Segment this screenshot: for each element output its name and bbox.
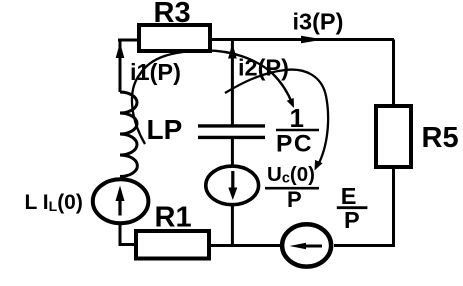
svg-text:Uc(0): Uc(0): [267, 163, 315, 187]
svg-text:E: E: [341, 183, 357, 209]
source E/P circle: [282, 224, 331, 266]
svg-text:i2(P): i2(P): [238, 55, 289, 81]
current source Uc(0)/P circle: [206, 166, 259, 205]
svg-text:P: P: [287, 187, 302, 212]
source E/P arrow: [304, 245, 322, 248]
svg-text:i1(P): i1(P): [130, 59, 181, 85]
resistor R5: [376, 106, 411, 167]
wire bottom left corner: [119, 224, 137, 245]
resistor R3: [139, 25, 210, 51]
wire left vertical: [119, 39, 122, 93]
capacitor C plates: [198, 126, 265, 137]
label 1/PC fraction bar: [276, 129, 319, 132]
arrow i2 head: [228, 43, 237, 59]
svg-text:i3(P): i3(P): [293, 9, 344, 35]
wire middle branch upper: [231, 40, 234, 126]
svg-text:PC: PC: [276, 131, 313, 158]
arrow i1 head: [116, 43, 125, 59]
current source L·iL(0) circle: [93, 179, 149, 223]
svg-text:R3: R3: [154, 0, 191, 29]
inductor LP: [120, 92, 137, 177]
wire bottom right segment: [334, 244, 395, 247]
wire bottom middle segment: [209, 244, 280, 247]
wire middle branch lower: [231, 206, 234, 247]
current source L·iL(0) arrow: [118, 199, 121, 216]
resistor R1: [136, 231, 209, 259]
svg-text:1: 1: [290, 103, 304, 133]
svg-text:R1: R1: [155, 201, 192, 233]
arrow i3 head: [301, 36, 324, 44]
wire middle branch between cap and source: [231, 139, 234, 165]
wire top-left stub: [118, 39, 139, 42]
wire right upper vertical: [392, 40, 395, 107]
loop arrow curve A: [132, 50, 292, 144]
label Uc(0)/P fraction bar: [265, 187, 319, 190]
svg-text:P: P: [344, 207, 360, 233]
svg-text:LP: LP: [147, 114, 183, 145]
svg-text:R5: R5: [422, 122, 459, 154]
label E/P fraction bar: [337, 206, 368, 209]
wire right lower vertical: [392, 167, 395, 246]
current source Uc(0)/P arrow: [231, 171, 234, 188]
loop arrow curve B: [225, 70, 328, 167]
wire top horizontal: [210, 38, 394, 41]
